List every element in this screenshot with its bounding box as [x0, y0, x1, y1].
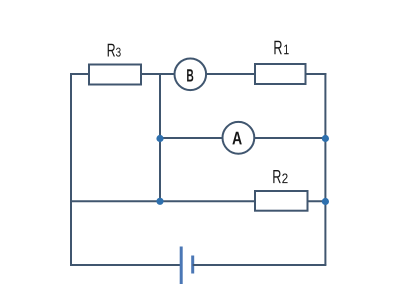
wire: right vertical — [324, 73, 326, 265]
label R1 — [274, 41, 288, 54]
wire: bottom right — [193, 264, 327, 266]
wire: R3 to node T — [141, 73, 175, 75]
meter A (ammeter) — [223, 122, 255, 154]
battery: short plate — [191, 256, 194, 274]
wire: R2 to right dot — [308, 200, 326, 202]
resistor R1 — [255, 64, 306, 84]
wire: node T vertical (x=160) — [159, 74, 161, 201]
wire: A branch right — [254, 137, 325, 139]
battery: long plate — [180, 247, 183, 285]
wire: top-left stub — [70, 73, 89, 75]
wire: bottom left — [70, 264, 181, 266]
node: junction dot left-A — [156, 135, 163, 142]
wire: left vertical — [70, 74, 72, 265]
node: junction dot right-R2 — [322, 198, 329, 205]
wire: A branch left — [160, 137, 223, 139]
label R2 — [273, 170, 287, 183]
node: junction dot left-R2 — [156, 198, 163, 205]
node: junction dot right-A — [322, 135, 329, 142]
meter B (voltmeter) — [175, 59, 207, 91]
resistor R3 — [89, 65, 141, 85]
wire: R1 to right corner — [306, 73, 327, 75]
wire: B to R1 — [206, 73, 255, 75]
label R3 — [108, 44, 121, 57]
wire: R2 branch left — [71, 200, 255, 202]
resistor R2 — [255, 191, 308, 211]
